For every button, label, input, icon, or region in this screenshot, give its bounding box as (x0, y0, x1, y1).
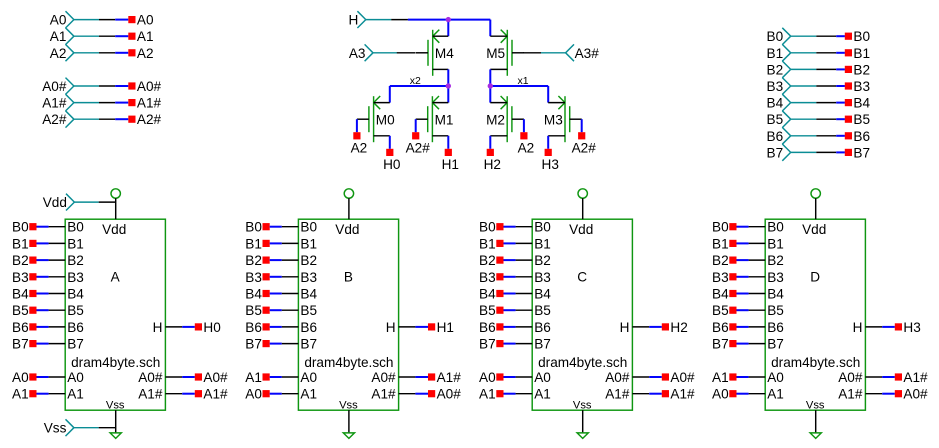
svg-text:B3: B3 (67, 270, 84, 285)
svg-text:B6: B6 (534, 320, 551, 335)
net label A1# (128, 96, 161, 111)
wire H pin box D (865, 326, 894, 328)
svg-text:H2: H2 (670, 320, 687, 335)
transistor M4 (416, 30, 454, 76)
net label B7 (845, 145, 870, 160)
net label B5 (845, 112, 870, 127)
wire B0 pin box D (737, 226, 766, 228)
svg-text:B5: B5 (479, 303, 496, 318)
svg-text:B5: B5 (534, 303, 551, 318)
wire B0 (816, 35, 845, 37)
svg-text:A0: A0 (67, 370, 84, 385)
svg-text:B: B (344, 270, 353, 285)
net label B5 (479, 303, 503, 318)
wire vdd stem box A (115, 198, 117, 219)
vdd symbol box C (578, 189, 587, 198)
wire Vdd net (99, 201, 116, 203)
svg-text:Vss: Vss (573, 399, 592, 411)
wire vdd stem box D (815, 198, 817, 219)
svg-text:B6: B6 (767, 320, 784, 335)
svg-text:B5: B5 (853, 112, 870, 127)
wire node x1 to M2 drain (489, 86, 491, 103)
svg-text:A0#: A0# (203, 370, 228, 385)
svg-text:H: H (153, 320, 163, 335)
svg-text:B6: B6 (767, 129, 784, 144)
svg-text:B7: B7 (767, 337, 784, 352)
junction (446, 17, 451, 22)
svg-text:A0: A0 (137, 13, 154, 28)
wire H0 source drop (389, 136, 391, 149)
svg-text:B3: B3 (712, 270, 729, 285)
wire B0 pin box C (504, 226, 533, 228)
svg-text:B2: B2 (767, 62, 784, 77)
vdd symbol box A (111, 189, 120, 198)
svg-text:Vss: Vss (44, 421, 67, 436)
net label A0 (245, 387, 269, 402)
wire M5 source to node x1 (489, 69, 491, 86)
svg-text:x2: x2 (410, 75, 421, 87)
svg-text:A1#: A1# (137, 96, 162, 111)
wire A2# gate drop (581, 119, 583, 132)
wire A0# (99, 85, 128, 87)
wire vss stem box C (582, 410, 584, 433)
wire B1 pin box A (37, 242, 66, 244)
net label B0 (479, 220, 503, 235)
svg-text:dram4byte.sch: dram4byte.sch (304, 355, 393, 370)
wire M4 source to node x2 (447, 69, 449, 86)
svg-text:B1: B1 (767, 46, 784, 61)
wire A3 to M4 gate (397, 52, 416, 54)
svg-text:A0#: A0# (437, 387, 462, 402)
svg-text:B7: B7 (712, 337, 729, 352)
wire B3 (816, 85, 845, 87)
wire B1 pin box B (270, 242, 299, 244)
wire B3 pin box B (270, 276, 299, 278)
svg-text:M2: M2 (486, 112, 505, 127)
wire node x2 to M1 drain (447, 86, 449, 103)
wire A1 pin box A (37, 393, 66, 395)
wire H1 source drop (447, 136, 449, 149)
net label B4 (12, 287, 36, 302)
svg-text:B2: B2 (534, 253, 551, 268)
svg-text:A1: A1 (479, 387, 496, 402)
svg-text:A: A (111, 270, 121, 285)
wire A1 (99, 35, 128, 37)
svg-text:A1#: A1# (371, 387, 396, 402)
svg-text:B6: B6 (67, 320, 84, 335)
wire B5 pin box B (270, 309, 299, 311)
svg-text:A1#: A1# (903, 370, 928, 385)
svg-text:Vdd: Vdd (569, 222, 593, 237)
svg-text:M0: M0 (376, 112, 395, 127)
svg-text:A1#: A1# (437, 370, 462, 385)
svg-text:M4: M4 (435, 46, 454, 61)
svg-text:B4: B4 (767, 287, 784, 302)
svg-text:A0: A0 (767, 370, 784, 385)
wire B4 pin box C (504, 293, 533, 295)
svg-text:C: C (577, 270, 587, 285)
wire A0 pin box C (504, 376, 533, 378)
svg-text:A1#: A1# (203, 387, 228, 402)
svg-text:H: H (386, 320, 396, 335)
net label B0 (845, 29, 871, 44)
svg-text:A0#: A0# (42, 79, 67, 94)
input pin B1 (767, 44, 817, 61)
svg-text:B2: B2 (712, 253, 729, 268)
svg-text:A1#: A1# (605, 387, 630, 402)
svg-text:B4: B4 (712, 287, 729, 302)
net label A1# (662, 387, 695, 402)
wire B4 pin box B (270, 293, 299, 295)
net label H1 (442, 149, 459, 172)
input pin Vdd (43, 194, 99, 211)
net label B1 (845, 46, 870, 61)
svg-text:dram4byte.sch: dram4byte.sch (538, 355, 627, 370)
svg-text:B7: B7 (767, 145, 784, 160)
svg-text:B5: B5 (245, 303, 262, 318)
svg-text:A0#: A0# (838, 370, 863, 385)
svg-text:B4: B4 (767, 96, 784, 111)
vdd symbol box D (811, 189, 820, 198)
net label B3 (245, 270, 269, 285)
svg-text:B2: B2 (853, 62, 870, 77)
svg-text:A1: A1 (67, 387, 84, 402)
svg-text:A1: A1 (767, 387, 784, 402)
svg-text:A1: A1 (137, 29, 154, 44)
svg-text:H1: H1 (437, 320, 454, 335)
wire A1# pin box A (165, 393, 194, 395)
svg-text:A1: A1 (300, 387, 317, 402)
ground box C (577, 433, 588, 439)
wire vss stem box A (115, 410, 117, 433)
wire H2 source drop (489, 136, 491, 149)
svg-text:B0: B0 (853, 29, 870, 44)
wire A0 (99, 19, 128, 21)
net label B3 (712, 270, 736, 285)
input pin A0 (50, 11, 99, 28)
net label B1 (12, 236, 36, 251)
net label B7 (712, 337, 736, 352)
input pin A2 (50, 44, 99, 61)
wire H to M4 drain (447, 20, 449, 37)
svg-text:A3#: A3# (575, 46, 600, 61)
input pin A1# (42, 94, 99, 111)
input pin B5 (767, 111, 817, 128)
net label B3 (845, 79, 870, 94)
net label A1 (128, 29, 153, 44)
svg-text:A2: A2 (50, 46, 67, 61)
wire vdd stem box C (582, 198, 584, 219)
wire H to M5 drain (489, 20, 491, 37)
net label A1# (895, 370, 928, 385)
svg-text:Vdd: Vdd (335, 222, 359, 237)
wire A0 pin box B (270, 393, 299, 395)
wire H net (391, 19, 490, 21)
svg-text:Vss: Vss (106, 399, 125, 411)
svg-text:A0: A0 (534, 370, 551, 385)
wire A0# pin box D (865, 393, 894, 395)
net label A2# (406, 132, 431, 155)
svg-text:B4: B4 (300, 287, 317, 302)
svg-text:B7: B7 (853, 145, 870, 160)
svg-text:Vdd: Vdd (43, 195, 67, 210)
wire A0# pin box A (165, 376, 194, 378)
input pin B2 (767, 61, 817, 78)
svg-text:A0#: A0# (605, 370, 630, 385)
net label A1 (479, 387, 503, 402)
svg-text:Vdd: Vdd (102, 222, 126, 237)
svg-text:B6: B6 (300, 320, 317, 335)
net label B3 (479, 270, 503, 285)
svg-text:A2#: A2# (42, 112, 67, 127)
wire A2 gate drop (356, 119, 358, 132)
net label A0# (195, 370, 228, 385)
transistor M3 (544, 96, 582, 142)
net label A0# (895, 387, 928, 402)
svg-text:A0: A0 (712, 387, 729, 402)
input pin A3 (349, 44, 397, 61)
svg-text:A3: A3 (349, 46, 366, 61)
wire vss stem box D (815, 410, 817, 433)
svg-text:H0: H0 (383, 157, 401, 172)
svg-text:B3: B3 (853, 79, 870, 94)
transistor M5 (486, 30, 524, 76)
net label B4 (712, 287, 736, 302)
wire A0 pin box A (37, 376, 66, 378)
svg-text:B7: B7 (67, 337, 84, 352)
wire A2 gate drop (523, 119, 525, 132)
net label H1 (428, 320, 454, 335)
junction (446, 83, 451, 88)
net label B2 (12, 253, 36, 268)
wire B2 (816, 68, 845, 70)
wire Vss net (99, 427, 116, 429)
wire B7 pin box C (504, 343, 533, 345)
input pin A2# (42, 111, 99, 128)
svg-text:A0#: A0# (670, 370, 695, 385)
transistor M1 (416, 96, 454, 142)
ground box D (810, 433, 821, 439)
svg-text:B5: B5 (67, 303, 84, 318)
wire B7 (816, 151, 845, 153)
svg-text:B0: B0 (712, 220, 729, 235)
wire B5 pin box A (37, 309, 66, 311)
wire B7 pin box B (270, 343, 299, 345)
wire B5 (816, 118, 845, 120)
net label B5 (712, 303, 736, 318)
wire B6 pin box A (37, 326, 66, 328)
net label B0 (712, 220, 736, 235)
wire A2 (99, 52, 128, 54)
svg-text:B4: B4 (853, 96, 870, 111)
wire A0# pin box C (632, 376, 661, 378)
net label H0 (383, 149, 401, 172)
net label B4 (845, 96, 871, 111)
wire A1# pin box C (632, 393, 661, 395)
svg-text:B4: B4 (12, 287, 29, 302)
svg-text:B1: B1 (245, 236, 262, 251)
svg-text:H0: H0 (203, 320, 221, 335)
svg-text:B6: B6 (479, 320, 496, 335)
svg-text:B6: B6 (245, 320, 262, 335)
wire B2 pin box D (737, 259, 766, 261)
wire B3 pin box A (37, 276, 66, 278)
net label A0 (12, 370, 36, 385)
wire H pin box A (165, 326, 194, 328)
svg-text:A0#: A0# (371, 370, 396, 385)
wire A0# pin box B (399, 393, 428, 395)
svg-text:B6: B6 (712, 320, 729, 335)
net label B1 (479, 236, 503, 251)
wire B1 pin box C (504, 242, 533, 244)
svg-text:B4: B4 (67, 287, 84, 302)
input pin Vss (44, 419, 99, 436)
net label A0# (428, 387, 461, 402)
svg-text:B0: B0 (12, 220, 29, 235)
svg-text:B2: B2 (767, 253, 784, 268)
net label B0 (12, 220, 36, 235)
svg-text:M3: M3 (544, 112, 563, 127)
svg-text:B3: B3 (767, 270, 784, 285)
svg-text:B1: B1 (767, 236, 784, 251)
net label B2 (712, 253, 736, 268)
net label A1# (195, 387, 228, 402)
subcircuit U1 A dram4byte.sch (65, 219, 165, 411)
svg-text:D: D (810, 270, 820, 285)
wire B4 pin box A (37, 293, 66, 295)
wire A1 pin box B (270, 376, 299, 378)
input pin B6 (767, 127, 817, 144)
svg-text:H: H (348, 13, 358, 28)
wire node x1 to M3 drain (490, 86, 548, 103)
net label H2 (484, 149, 501, 172)
svg-text:A0: A0 (300, 370, 317, 385)
wire B4 pin box D (737, 293, 766, 295)
net label B2 (479, 253, 503, 268)
input pin A1 (50, 28, 99, 45)
wire A1 pin box C (504, 393, 533, 395)
subcircuit U2 B dram4byte.sch (298, 219, 398, 411)
svg-text:B3: B3 (767, 79, 784, 94)
svg-text:B0: B0 (67, 220, 84, 235)
net label B7 (479, 337, 503, 352)
net label B2 (845, 62, 870, 77)
svg-text:B5: B5 (12, 303, 29, 318)
svg-text:Vss: Vss (806, 399, 825, 411)
svg-text:B0: B0 (479, 220, 496, 235)
svg-text:B0: B0 (300, 220, 317, 235)
wire B7 pin box A (37, 343, 66, 345)
net label A2 (128, 46, 153, 61)
input pin A3# (541, 44, 599, 61)
net label B6 (245, 320, 269, 335)
net label A0# (662, 370, 695, 385)
wire A1# pin box D (865, 376, 894, 378)
net label H0 (195, 320, 221, 335)
svg-text:A0: A0 (12, 370, 29, 385)
svg-text:B4: B4 (479, 287, 496, 302)
wire H pin box C (632, 326, 661, 328)
svg-text:A0: A0 (245, 387, 262, 402)
net label B6 (712, 320, 736, 335)
net label B5 (12, 303, 36, 318)
svg-text:B2: B2 (67, 253, 84, 268)
net label B1 (245, 236, 269, 251)
wire B3 pin box D (737, 276, 766, 278)
wire B6 pin box C (504, 326, 533, 328)
svg-text:H: H (853, 320, 863, 335)
svg-text:B2: B2 (245, 253, 262, 268)
wire A3# to M5 gate (523, 52, 541, 54)
net label B2 (245, 253, 269, 268)
svg-text:dram4byte.sch: dram4byte.sch (71, 355, 160, 370)
svg-text:B1: B1 (12, 236, 29, 251)
wire A2# (99, 118, 128, 120)
wire B4 (816, 102, 845, 104)
svg-text:A0#: A0# (137, 79, 162, 94)
net label H3 (542, 149, 559, 172)
svg-text:B3: B3 (479, 270, 496, 285)
net label B6 (12, 320, 36, 335)
net label A2# (572, 132, 597, 155)
svg-text:B2: B2 (479, 253, 496, 268)
svg-text:B6: B6 (12, 320, 29, 335)
wire A1# pin box B (399, 376, 428, 378)
svg-text:B3: B3 (245, 270, 262, 285)
svg-text:A1#: A1# (42, 96, 67, 111)
net label A2# (128, 112, 161, 127)
svg-text:B5: B5 (300, 303, 317, 318)
wire A1 pin box D (737, 376, 766, 378)
svg-text:A1#: A1# (838, 387, 863, 402)
ground box A (110, 433, 121, 439)
net label A1 (245, 370, 269, 385)
junction (488, 83, 493, 88)
svg-text:B7: B7 (300, 337, 317, 352)
svg-text:B0: B0 (534, 220, 551, 235)
svg-text:A1: A1 (245, 370, 262, 385)
wire B6 (816, 135, 845, 137)
ground box B (343, 433, 354, 439)
wire vss stem box B (348, 410, 350, 433)
svg-text:M5: M5 (486, 46, 505, 61)
svg-text:A0#: A0# (903, 387, 928, 402)
wire A0 pin box D (737, 393, 766, 395)
net label B5 (245, 303, 269, 318)
net label A0# (128, 79, 161, 94)
input pin H (348, 11, 391, 28)
wire B1 pin box D (737, 242, 766, 244)
svg-text:H: H (620, 320, 630, 335)
svg-text:H3: H3 (542, 157, 559, 172)
svg-text:B3: B3 (534, 270, 551, 285)
net label A0 (128, 13, 154, 28)
wire B6 pin box D (737, 326, 766, 328)
svg-text:Vdd: Vdd (802, 222, 826, 237)
transistor M2 (486, 96, 524, 142)
svg-text:A2: A2 (137, 46, 154, 61)
svg-text:H1: H1 (442, 157, 459, 172)
wire B2 pin box C (504, 259, 533, 261)
net label A0 (712, 387, 736, 402)
wire B0 pin box B (270, 226, 299, 228)
input pin B3 (767, 78, 817, 95)
svg-text:B7: B7 (245, 337, 262, 352)
svg-text:B4: B4 (245, 287, 262, 302)
wire B5 pin box C (504, 309, 533, 311)
svg-text:B2: B2 (12, 253, 29, 268)
svg-text:B3: B3 (12, 270, 29, 285)
